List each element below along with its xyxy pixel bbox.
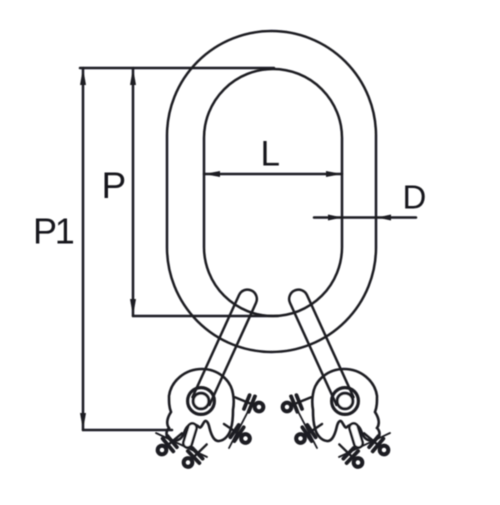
dimension P1 bottom extension — [83, 429, 172, 432]
dimension L line — [204, 173, 342, 176]
bottom cluster pin line — [339, 433, 390, 457]
arrow L left — [204, 171, 220, 177]
arrow D right — [377, 215, 391, 221]
bolt lower left — [292, 417, 326, 448]
left connector strut — [193, 290, 257, 405]
arrow D left — [328, 215, 342, 221]
left cluster pin line — [290, 396, 317, 448]
arrow P top — [130, 68, 136, 85]
dimension extension line top — [80, 67, 274, 70]
svg-text:L: L — [261, 135, 280, 174]
arrow P bottom — [130, 299, 136, 316]
fitting hole inner — [337, 393, 353, 409]
arrow P1 top — [80, 68, 86, 85]
dimension P1 line — [82, 68, 85, 430]
master link inner contour — [204, 69, 342, 316]
dimension P line — [132, 68, 135, 316]
svg-text:P1: P1 — [33, 211, 74, 252]
fitting slot — [349, 423, 362, 447]
master link outer contour — [167, 31, 376, 352]
right clutch fitting — [280, 369, 393, 471]
fitting body — [312, 369, 379, 441]
svg-text:D: D — [403, 179, 427, 216]
dimension D line — [314, 216, 416, 219]
bolt lower right inner — [334, 438, 367, 471]
bolt lower right outer — [359, 427, 393, 459]
arrow P1 bottom — [80, 413, 86, 430]
fitting hole outer — [332, 388, 359, 415]
arrow L right — [326, 171, 342, 177]
svg-text:P: P — [102, 165, 127, 206]
dimension P bottom extension — [133, 315, 278, 318]
arrowheads — [80, 68, 391, 430]
right connector strut — [289, 290, 353, 405]
left clutch fitting (mirror) — [153, 369, 266, 471]
bolt upper left — [280, 390, 314, 417]
